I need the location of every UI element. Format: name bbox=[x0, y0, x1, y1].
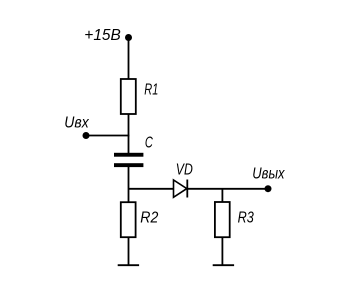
wire: +15V terminal to R1 top bbox=[128, 38, 130, 80]
node: +15V terminal dot bbox=[125, 34, 132, 41]
resistor R2 bbox=[121, 202, 136, 237]
svg-text:R2: R2 bbox=[140, 209, 158, 226]
svg-text:R3: R3 bbox=[238, 209, 254, 226]
ground (under R3) bbox=[213, 264, 234, 266]
diode VD bbox=[174, 180, 188, 198]
resistor R3 bbox=[215, 202, 230, 237]
svg-text:C: C bbox=[145, 134, 153, 151]
wire: output line down to R3 top bbox=[221, 189, 223, 202]
capacitor C top plate bbox=[114, 153, 143, 157]
node: Uвых output terminal dot bbox=[265, 185, 272, 192]
svg-text:Uвх: Uвх bbox=[64, 115, 89, 132]
wire: junction to diode anode bbox=[129, 188, 174, 190]
wire: R3 bottom to ground bbox=[221, 237, 223, 265]
node: Uвх input terminal dot bbox=[83, 132, 90, 139]
capacitor C bottom plate bbox=[114, 163, 143, 167]
wire: C bottom plate to R2 top bbox=[128, 167, 130, 202]
wire: R1 bottom to capacitor C top plate bbox=[128, 114, 130, 153]
ground (under R2) bbox=[118, 264, 139, 266]
svg-text:+15В: +15В bbox=[84, 27, 121, 44]
svg-text:Uвых: Uвых bbox=[252, 165, 285, 182]
svg-text:R1: R1 bbox=[144, 82, 158, 99]
wire: Uвх terminal to main vertical line bbox=[86, 135, 129, 137]
svg-text:VD: VD bbox=[176, 162, 193, 179]
resistor R1 bbox=[121, 79, 136, 114]
wire: R2 bottom to ground bbox=[128, 237, 130, 265]
wire: diode cathode to Uвых terminal bbox=[187, 188, 268, 190]
